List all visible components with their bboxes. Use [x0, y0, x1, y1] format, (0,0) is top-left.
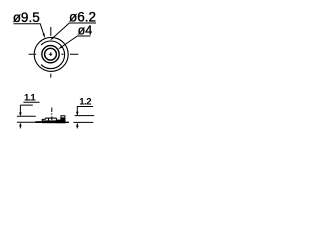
circle B arc (open on left) — [41, 41, 65, 69]
side view tab — [61, 116, 65, 121]
dim 1.2 tail — [76, 125, 78, 128]
dim 1.1 ext bottom — [17, 121, 35, 123]
dim 1.2 ext bottom — [73, 121, 93, 123]
dim 1.2 down arrow — [76, 112, 79, 116]
arrow ø9.5 — [43, 33, 46, 38]
leader ø9.5 — [14, 24, 44, 34]
side view bottom line — [35, 121, 69, 123]
arrow ø4 — [58, 46, 63, 50]
side view base heavy band — [42, 120, 65, 123]
side view hole left edge — [48, 118, 50, 120]
side centerline — [51, 108, 53, 121]
centerline vertical — [50, 27, 52, 78]
side view flange band left — [35, 121, 42, 123]
dim 1.1 tail — [19, 125, 21, 128]
arrow ø6.2 — [50, 36, 54, 40]
dim 1.2 up arrow — [76, 123, 79, 127]
circle C — [42, 46, 59, 63]
dim 1.2 ext top — [75, 115, 95, 117]
leader ø4 — [61, 36, 90, 47]
leader ø6.2 — [53, 23, 97, 38]
side view hole right edge — [55, 118, 57, 121]
circle D inner — [45, 48, 57, 60]
dim 1.1 ext top — [17, 115, 36, 117]
dim 1.1 down arrow — [19, 112, 22, 116]
band under tab — [57, 120, 66, 124]
tab lower fill — [61, 117, 65, 120]
centerline horizontal — [29, 53, 79, 55]
dim 1.1 up arrow — [19, 123, 22, 127]
dim 1.1 shelf — [20, 105, 32, 115]
svg-text:ø6.2: ø6.2 — [69, 10, 96, 25]
dim 1.1 underline — [23, 101, 39, 103]
dim 1.2 underline leader — [77, 107, 93, 115]
side view left step — [42, 118, 45, 121]
circle A outer — [34, 37, 68, 71]
side view boss top — [45, 117, 56, 119]
svg-text:ø4: ø4 — [78, 24, 93, 38]
svg-text:ø9.5: ø9.5 — [13, 10, 40, 25]
